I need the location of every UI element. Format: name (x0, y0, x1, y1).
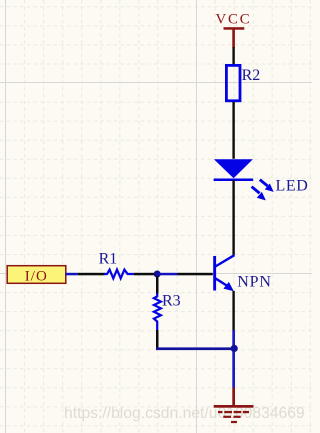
wire node A down to R3 (156, 276, 159, 294)
wire R2 to LED (232, 102, 234, 159)
wire I/O to R1 (black) (78, 273, 105, 276)
wire node A to base (blue stub) (157, 273, 177, 276)
resistor R2 (226, 65, 240, 100)
wire VCC to R2 (232, 47, 234, 65)
svg-text:https://blog.csdn.net/u0100834: https://blog.csdn.net/u0100834669 (64, 405, 305, 422)
wire R1 to node A (134, 273, 154, 276)
wire emitter to ground (blue) (232, 330, 235, 388)
wire I/O to R1 (blue stub) (65, 273, 78, 276)
svg-text:LED: LED (276, 177, 309, 194)
resistor R3 (154, 293, 161, 330)
node B junction (231, 345, 238, 352)
LED arrow 2 (252, 187, 265, 200)
ground symbol (214, 405, 254, 423)
LED D1 (214, 159, 254, 181)
svg-text:NPN: NPN (237, 273, 271, 290)
power port VCC (215, 11, 251, 47)
wire R3 to bottom corner (156, 330, 159, 349)
port I/O (7, 266, 66, 285)
svg-text:R1: R1 (99, 251, 118, 268)
wire bottom horizontal (156, 347, 236, 350)
wire emitter down (232, 291, 234, 331)
transistor Q1 NPN (213, 255, 234, 291)
LED arrow 1 (260, 180, 273, 192)
svg-text:R2: R2 (242, 67, 261, 84)
resistor R1 (104, 270, 134, 279)
node A junction (154, 271, 161, 278)
svg-text:VCC: VCC (215, 11, 251, 27)
svg-text:I/O: I/O (25, 269, 48, 285)
svg-text:R3: R3 (162, 293, 181, 310)
ground stem (232, 388, 235, 406)
wire node A to base (black) (178, 273, 213, 276)
wire LED to Q1 collector (232, 180, 234, 256)
